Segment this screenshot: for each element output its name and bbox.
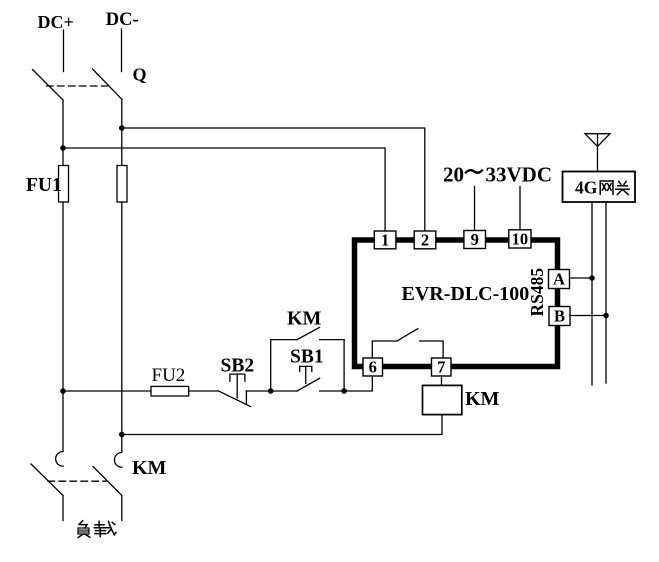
wire DC- rail (breaker to fuse FU1) (121, 100, 123, 166)
svg-text:FU1: FU1 (26, 175, 62, 196)
fuse FU1 pole 2 (117, 166, 127, 203)
wire coil to DC- return (122, 415, 442, 435)
svg-text:B: B (554, 307, 565, 326)
glyph 关 (hand drawn) (616, 181, 629, 194)
wire SB1 right lead (320, 390, 345, 392)
wire DC- to module pin 2 (122, 128, 425, 232)
node junction DC- return (119, 432, 125, 438)
relay contact internal blade (397, 329, 418, 341)
pushbutton SB1 (NO start button) blade (297, 378, 320, 391)
wire DC- rail top (121, 29, 123, 72)
svg-text:KM: KM (132, 457, 167, 479)
node junction B feed (603, 313, 609, 319)
pushbutton SB2 fixed contact seat (245, 391, 247, 404)
breaker Q pole 1 blade (33, 70, 64, 101)
coil KM (423, 385, 462, 414)
wire DC- rail (fuse to contactor) (121, 202, 123, 452)
pin 9 (464, 231, 486, 249)
svg-text:RS485: RS485 (527, 268, 547, 317)
wire load lead 1 (62, 496, 64, 521)
node junction A feed (589, 275, 595, 281)
module EVR-DLC-100 outline (355, 240, 558, 367)
contact KM auxiliary (NO, parallel with SB1) left riser (270, 340, 272, 391)
contactor KM pole 1 blade (31, 464, 63, 496)
pushbutton SB2 actuator (230, 374, 245, 381)
wire load lead 2 (121, 496, 123, 521)
wire DC+ to module pin 1 (63, 148, 385, 232)
svg-text:EVR-DLC-100: EVR-DLC-100 (402, 283, 530, 305)
label 负载 (load, hand drawn) (78, 521, 90, 538)
pin 6 (363, 358, 383, 376)
svg-text:SB1: SB1 (290, 347, 324, 368)
wire pin 7 to coil (441, 377, 443, 386)
pushbutton SB2 (NC stop button) blade (219, 391, 251, 407)
wire control line to fuse FU2 (63, 390, 151, 392)
pin B (549, 307, 570, 326)
svg-text:9: 9 (471, 230, 479, 249)
contactor KM pole 1 arc (56, 452, 63, 467)
antenna (585, 134, 610, 147)
svg-text:6: 6 (369, 358, 377, 377)
wire gateway feed left (591, 202, 593, 385)
svg-text:KM: KM (287, 308, 322, 330)
wire DC+ rail (breaker to fuse FU1) (62, 100, 64, 166)
contactor KM pole 2 blade (93, 467, 122, 496)
pin A (549, 270, 570, 289)
node junction DC+ to pin 1 feed (60, 145, 66, 151)
pin 7 (432, 358, 452, 376)
contact KM aux left lead (271, 339, 297, 341)
glyph 网 (hand drawn) (600, 181, 613, 194)
wire supply to pin 10 (519, 187, 521, 230)
node junction SB1/KM branch right (341, 388, 347, 394)
pin 1 (374, 231, 396, 249)
gateway box 4G (563, 172, 636, 203)
wire supply to pin 9 (474, 187, 476, 231)
wire node to pin 6 (344, 377, 372, 392)
svg-text:7: 7 (437, 358, 445, 377)
svg-text:20: 20 (443, 163, 464, 187)
contactor KM pole 2 arc (114, 453, 121, 468)
svg-text:SB2: SB2 (221, 356, 255, 377)
svg-text:4G: 4G (575, 178, 598, 198)
contact KM aux right lead (320, 339, 345, 341)
node junction DC- to pin 2 feed (119, 125, 125, 131)
breaker Q linkage (dashed) (47, 85, 108, 87)
wire DC+ rail (fuse to contactor) (62, 202, 64, 452)
svg-text:33VDC: 33VDC (486, 163, 553, 187)
wire DC+ rail top (63, 30, 65, 72)
pin 2 (414, 231, 436, 249)
wire gateway feed right (605, 202, 607, 383)
pin 10 (509, 230, 531, 248)
relay contact internal right lead (420, 341, 444, 358)
fuse FU2 (151, 386, 189, 396)
wire pin A to feed (570, 277, 593, 279)
svg-text:DC-: DC- (106, 10, 139, 30)
pushbutton SB1 actuator (300, 366, 312, 371)
wire SB2 to node (246, 390, 270, 392)
wire pin B to feed (570, 315, 606, 317)
svg-text:2: 2 (421, 231, 429, 250)
relay contact internal (between pins 6 and 7) left lead (372, 341, 397, 358)
contactor KM linkage (dashed) (48, 480, 108, 482)
svg-text:1: 1 (381, 231, 389, 250)
wire FU2 to SB2 (189, 390, 219, 392)
svg-text:FU2: FU2 (152, 365, 186, 386)
svg-text:Q: Q (133, 65, 147, 85)
svg-text:KM: KM (465, 388, 500, 410)
contact KM aux right riser (343, 340, 345, 391)
node junction SB2/KM branch (268, 388, 274, 394)
wire SB1 left lead (271, 390, 297, 392)
svg-text:A: A (553, 270, 565, 289)
contact KM aux blade (297, 327, 320, 339)
breaker Q pole 2 blade (93, 69, 123, 100)
svg-text:DC+: DC+ (38, 12, 74, 32)
node junction DC+ control branch (60, 388, 66, 394)
svg-text:10: 10 (512, 230, 529, 249)
fuse FU1 pole 1 (59, 166, 69, 203)
